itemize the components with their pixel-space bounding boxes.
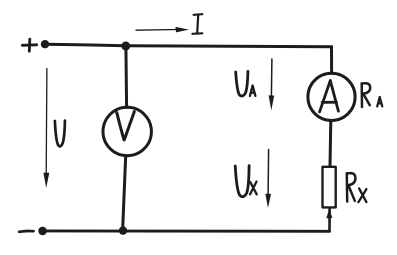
voltage arrow U [43, 69, 49, 189]
label I [192, 14, 202, 34]
voltage arrow UX [265, 150, 271, 209]
arrowhead into resistor [326, 209, 332, 219]
wire top [45, 44, 332, 47]
resistor RX [323, 167, 336, 208]
node junction bottom [119, 226, 127, 234]
voltage arrow UA [269, 59, 275, 111]
wire voltmeter top [124, 46, 128, 107]
wire resistor bottom [328, 209, 331, 231]
node junction top [121, 42, 130, 51]
plus terminal [22, 39, 36, 51]
ammeter A1 [308, 73, 355, 120]
label U [55, 121, 65, 147]
terminal dot minus [38, 227, 47, 236]
label RA [362, 83, 383, 107]
minus terminal [19, 230, 33, 234]
current arrow I [136, 27, 189, 33]
wire ammeter to resistor [329, 120, 333, 166]
label RX [347, 173, 367, 202]
wire right vertical top [330, 47, 333, 74]
voltmeter V1 [103, 107, 151, 155]
terminal dot plus [41, 40, 49, 48]
wire bottom [43, 229, 330, 232]
wire voltmeter bottom [123, 156, 126, 231]
label UA [236, 71, 256, 96]
label UX [235, 166, 257, 197]
